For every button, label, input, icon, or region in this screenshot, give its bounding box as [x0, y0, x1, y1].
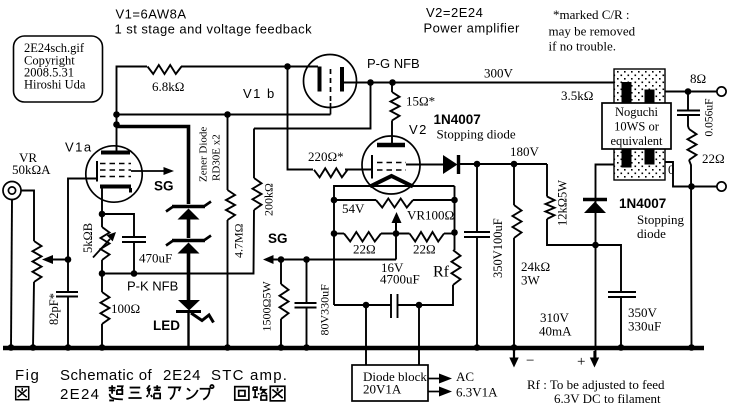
capacitor C 82pF plates [56, 292, 78, 297]
AC arrow [428, 378, 440, 380]
wire: 6.8k to V1b plate [181, 66, 318, 68]
wire: 1500 ohm top lead [280, 260, 282, 285]
svg-text:4.7MΩ: 4.7MΩ [232, 223, 246, 258]
OPT stippled core [614, 69, 665, 180]
svg-text:1500Ω5W: 1500Ω5W [260, 281, 274, 332]
svg-text:Zener Diode: Zener Diode [198, 127, 210, 182]
wire: right column of cathode block [454, 186, 456, 250]
svg-text:if no trouble.: if no trouble. [549, 39, 617, 54]
svg-text:diode: diode [637, 226, 666, 241]
wire: VR wiper junction down to SG line [395, 233, 397, 260]
wire: P-G NFB branch horizontal [288, 83, 371, 129]
LED triangle [178, 300, 200, 311]
svg-text:220Ω*: 220Ω* [308, 149, 344, 164]
wire: 330uF to ground [620, 297, 622, 348]
svg-text:Rf : To be adjusted to feed: Rf : To be adjusted to feed [527, 377, 665, 392]
OPT winding bar primary bottom [622, 149, 632, 168]
svg-text:50kΩA: 50kΩA [12, 162, 51, 177]
resistor 15 ohm zigzag [391, 92, 400, 121]
resistor 12k zigzag [546, 197, 555, 220]
wire: VR100 right [413, 199, 455, 201]
svg-text:6.3V DC to filament: 6.3V DC to filament [554, 391, 661, 406]
pot wiper arrow VR50k [42, 255, 53, 264]
svg-text:180V: 180V [510, 144, 540, 159]
wire: 80V330uF to ground [306, 308, 308, 348]
wire: 15 ohm to V2 plate [391, 121, 393, 144]
svg-text:V2=2E24: V2=2E24 [426, 5, 483, 20]
svg-text:LED: LED [153, 318, 180, 333]
svg-text:P-G NFB: P-G NFB [367, 56, 420, 71]
svg-text:5kΩB: 5kΩB [81, 223, 95, 253]
svg-text:VR100Ω: VR100Ω [407, 208, 454, 223]
svg-text:54V: 54V [342, 201, 365, 216]
svg-text:330uF: 330uF [628, 319, 661, 334]
minus terminal arrow [513, 351, 515, 359]
svg-text:V1 b: V1 b [243, 86, 276, 101]
V1a cathode bar [100, 185, 131, 189]
wire: OPT 0 tap [655, 162, 717, 187]
capacitor 80V330uF plates [295, 303, 317, 308]
resistor 22b zigzag [410, 232, 445, 242]
resistor 1500 zigzag [280, 284, 289, 319]
svg-text:Stopping diode: Stopping diode [437, 127, 516, 142]
kanji kai [235, 387, 249, 400]
svg-text:Fig: Fig [15, 367, 40, 384]
resistor 22a zigzag [344, 232, 381, 242]
wire: 22 row middle [381, 233, 410, 235]
diode block box [352, 365, 428, 401]
wire: pot bottom to ground rail [33, 282, 34, 348]
resistor 22 zobel zigzag [688, 129, 697, 160]
resistor 6.8k zigzag [148, 65, 182, 74]
svg-text:100Ω: 100Ω [111, 301, 140, 316]
wire: 16V row to 4700uF [334, 304, 391, 306]
V2 plate bar [377, 143, 405, 148]
kanji ro [253, 386, 267, 400]
svg-text:Rf: Rf [433, 264, 450, 281]
OPT label box [602, 103, 671, 149]
kanji san [128, 388, 141, 398]
wire: 4700uF to Rf [398, 285, 454, 305]
tube V1a envelope [86, 146, 142, 202]
input jack [3, 182, 21, 200]
wire: 82pF to ground [67, 297, 69, 348]
svg-text:10WS or: 10WS or [614, 120, 660, 134]
wire: diode block right riser [418, 305, 420, 365]
kanji ketsu [147, 385, 161, 398]
svg-text:4700uF: 4700uF [380, 272, 420, 287]
wire: 24k top lead [513, 164, 515, 205]
resistor 100 ohm zigzag [101, 292, 110, 324]
svg-text:V1a: V1a [65, 140, 93, 155]
wire: 310V node to 330uF [596, 245, 622, 292]
wire: jack sleeve to ground rail [11, 200, 12, 348]
svg-text:2E24: 2E24 [163, 367, 201, 384]
resistor VR100 zigzag [376, 199, 413, 208]
svg-text:40mA: 40mA [539, 324, 572, 339]
svg-text:6.3V1A: 6.3V1A [456, 385, 498, 400]
wire: 200k top lead [253, 129, 255, 179]
wire: 15 ohm top lead [391, 83, 393, 93]
V2 grid dashes [377, 163, 406, 171]
V1b cathode dashed line [330, 69, 332, 103]
V1a grid dashes [100, 164, 131, 177]
svg-text:0.056uF: 0.056uF [704, 98, 716, 136]
wire: input jack to grid riser [22, 191, 35, 242]
resistor 5k pot zigzag [101, 227, 110, 260]
svg-text:2E24: 2E24 [60, 386, 100, 403]
capacitor 350V100uF plates [464, 232, 490, 237]
wire: 5k bottom [101, 260, 103, 274]
OPT winding bar secondary top [645, 90, 655, 104]
plus terminal arrow [593, 351, 595, 359]
wire: 470uF bottom [133, 242, 135, 274]
wire: zobel cap lead [687, 92, 689, 111]
wire: 24k to ground [513, 238, 515, 348]
diode D2 1N4007 [583, 198, 607, 201]
wire: 470uF top branch [102, 214, 134, 237]
wire: 300V rail V1b grid to OPT [342, 82, 626, 84]
capacitor 0.056uF plates [677, 111, 700, 116]
svg-text:82pF*: 82pF* [47, 293, 61, 325]
copyright text [24, 41, 86, 92]
wire: wiper node down to 82pF [67, 260, 69, 293]
resistor Rf zigzag [452, 250, 461, 285]
thick wire zener to LED [187, 253, 191, 301]
copyright rounded box [14, 36, 103, 102]
katakana n [186, 388, 197, 399]
wire: 22 ohm row left [334, 233, 344, 235]
svg-text:+: + [577, 354, 585, 370]
LED bar [176, 310, 201, 313]
capacitor 470uF plates [122, 237, 146, 242]
tube V2 envelope [362, 136, 420, 194]
capacitor 4700uF plates [391, 294, 398, 318]
kanji caption glyphs [16, 385, 285, 401]
wire: 100 ohm to ground [101, 324, 103, 348]
OPT winding bar primary top [622, 82, 632, 103]
svg-text:6.8kΩ: 6.8kΩ [152, 79, 184, 94]
wire: V2 cathode row [334, 186, 455, 305]
wire: LED to ground [187, 313, 189, 348]
svg-text:3.5kΩ: 3.5kΩ [561, 88, 593, 103]
wire: OPT secondary top to 8 ohm terminal [655, 91, 717, 93]
V1a cathode hook [129, 188, 132, 193]
thick wire between zeners [187, 219, 191, 238]
svg-text:12kΩ5W: 12kΩ5W [556, 180, 570, 226]
svg-text:AC: AC [456, 369, 474, 384]
OPT winding bar secondary bottom [645, 149, 655, 165]
wire: V2 screen to stopping diode [406, 164, 443, 166]
svg-text:Hiroshi Uda: Hiroshi Uda [24, 78, 86, 92]
wire: zobel mid [688, 115, 689, 129]
wire: 350V100uF column [476, 164, 478, 232]
svg-text:22Ω: 22Ω [702, 151, 725, 166]
capacitor 350V330uF plates [608, 292, 636, 297]
junction dots [113, 111, 120, 118]
kanji cho [109, 385, 123, 400]
wire: pot wiper line [51, 259, 68, 261]
svg-text:20V1A: 20V1A [363, 382, 402, 397]
potentiometer VR 50k zigzag [33, 241, 42, 282]
svg-text:22Ω: 22Ω [413, 242, 436, 257]
wire: 100uF to ground [476, 237, 478, 348]
katakana pu [200, 385, 214, 400]
output terminal 0 [717, 182, 726, 191]
resistor 220 zigzag [314, 168, 348, 177]
svg-text:*marked C/R :: *marked C/R : [553, 7, 630, 22]
katakana a [168, 387, 180, 399]
V1b grid bar [340, 67, 344, 92]
wire: minus terminal stub [513, 348, 515, 361]
svg-text:1N4007: 1N4007 [434, 112, 481, 127]
svg-text:RD30E x2: RD30E x2 [211, 134, 223, 181]
svg-text:15Ω*: 15Ω* [406, 94, 435, 109]
output terminal 8 ohm [717, 87, 726, 96]
svg-text:P-K NFB: P-K NFB [127, 279, 178, 294]
V1a plate bar [101, 151, 130, 155]
V2 cathode chevron [370, 176, 413, 187]
V1a grid bar [96, 161, 98, 182]
svg-text:SG: SG [268, 231, 288, 246]
thick wire: V1a plate to zener string [117, 127, 189, 205]
svg-text:0: 0 [668, 162, 675, 177]
svg-text:−: − [526, 353, 534, 369]
svg-text:V2: V2 [409, 122, 428, 137]
svg-text:350V100uF: 350V100uF [491, 218, 505, 278]
wire: diode block left riser [365, 305, 367, 365]
resistor 200k zigzag [253, 178, 262, 210]
svg-text:V1=6AW8A: V1=6AW8A [116, 7, 187, 22]
wire: 200k bottom to P-K node [102, 210, 254, 274]
kanji zu 2 [270, 386, 285, 401]
wire: 200k top branch [254, 128, 288, 130]
svg-text:22Ω: 22Ω [353, 242, 376, 257]
LED squiggle [191, 313, 214, 323]
svg-text:SG: SG [154, 179, 174, 194]
svg-text:Noguchi: Noguchi [615, 105, 659, 119]
wire: OPT primary bottom to diode2 [596, 165, 627, 361]
svg-text:1 st stage and voltage feedbac: 1 st stage and voltage feedback [115, 22, 313, 37]
wire: zobel bottom to ground [689, 160, 692, 348]
arrow on 5k pot [93, 239, 110, 258]
wire: 54V row [334, 199, 376, 201]
svg-text:470uF: 470uF [139, 251, 172, 266]
bottom caption line 1 [15, 367, 288, 403]
ground rail [3, 346, 704, 351]
svg-text:equivalent: equivalent [610, 134, 663, 148]
wire: SG feed line [272, 259, 396, 261]
wire: 80V330uF top lead [306, 260, 308, 304]
svg-text:8Ω: 8Ω [690, 71, 706, 86]
zener D2 RD30E [172, 239, 205, 242]
wire: wiper node up to V1a grid [68, 179, 97, 260]
wire: V1a plate riser to 6.8k corner [117, 67, 148, 153]
diode D1 1N4007 [443, 155, 458, 174]
svg-text:300V: 300V [484, 66, 514, 81]
wire: V1b plate node down to V2 grid row [288, 67, 314, 170]
wire: 4.7M riser [227, 115, 229, 191]
wire: 220 to V2 grid bar [345, 169, 372, 171]
svg-text:may be removed: may be removed [549, 24, 636, 39]
wire: V1a cathode lead [101, 188, 103, 227]
wire: 100 ohm top lead [101, 274, 103, 293]
svg-text:200kΩ: 200kΩ [262, 183, 276, 216]
svg-text:Power amplifier: Power amplifier [424, 21, 521, 36]
tube V1b envelope [304, 55, 357, 108]
svg-text:Stopping: Stopping [637, 212, 684, 227]
kanji zu 1 [16, 387, 29, 400]
V2 grid bar [371, 155, 373, 179]
svg-text:Schematic of: Schematic of [60, 367, 152, 384]
OPT box text [610, 105, 663, 148]
svg-text:1N4007: 1N4007 [619, 196, 666, 211]
V1a SG arrow [131, 170, 165, 172]
wire: 1500 to ground [280, 319, 282, 348]
wire: diode out 180V row [460, 163, 547, 165]
V1b plate bar [318, 67, 322, 92]
wire: node A horizontal (V1a plate to V1b cathode) [117, 114, 331, 116]
SG feed arrow [263, 255, 274, 264]
wire: 4.7M bottom to ground rail [227, 220, 229, 348]
wire: 22 row right [444, 233, 455, 235]
ground rail dots [8, 344, 15, 351]
VR100 wiper arrow [395, 222, 397, 234]
wire: 12k top lead [546, 164, 548, 197]
svg-text:3W: 3W [521, 273, 541, 288]
wire: 12k bottom to 310V node [547, 219, 596, 245]
resistor 24k zigzag [513, 205, 522, 238]
svg-text:STC amp.: STC amp. [211, 367, 288, 384]
6.3V arrow [428, 391, 440, 393]
resistor 4.7M zigzag [226, 190, 235, 220]
zener D1 RD30E [172, 205, 205, 208]
svg-text:80V330uF: 80V330uF [318, 284, 332, 336]
